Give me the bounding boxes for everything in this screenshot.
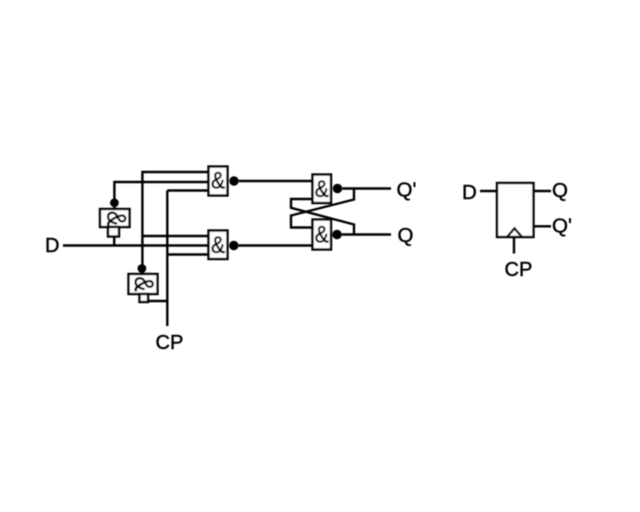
svg-text:D: D [462,181,477,204]
node D label [45,235,59,257]
wire CP to gate G3 [167,189,208,191]
nand gate G4 output bubble [229,241,238,250]
svg-text:&: & [101,211,131,226]
flipflop FF1 body [497,183,534,237]
wire Q output line [342,233,391,235]
svg-text:&: & [211,167,225,194]
svg-text:Q: Q [398,224,414,247]
wire D input line [63,244,209,246]
wire FF1 Q' output [534,225,552,227]
node Q' label (symbol) [552,215,572,238]
wire G4 output to gate G6 [239,244,313,246]
wire FF1 Q output [534,190,552,192]
wire G1 input stub from D line [113,237,115,246]
node CP label (symbol) [505,259,533,281]
node CP label [156,332,184,354]
svg-text:CP: CP [156,332,184,354]
svg-text:CP: CP [505,259,533,281]
wire cross feedback Q to G5 input [291,199,354,235]
node Q label (symbol) [552,179,568,202]
wire G2 square to CP line [148,300,167,302]
nand gate G5 output bubble [333,184,343,194]
flipflop FF1 clock triangle [507,228,522,237]
node Q label [398,224,414,247]
wire G3 output to gate G5 [239,180,313,182]
inverter G1 output bubble [110,198,119,207]
wire D input to FF1 [480,190,497,192]
inverter G1 body [100,209,131,227]
wire cross feedback Q' to G6 input [291,189,354,228]
wire G1 output riser to node Dbar [114,182,208,209]
inverter G2 body [128,274,158,294]
inverter G2 output bubble [138,264,147,273]
node D label (symbol) [462,181,477,204]
wire branch to gate G4 [142,235,208,237]
wire CP vertical [166,191,168,327]
nand gate G4 body [209,231,228,260]
nand gate G5 body [313,175,332,204]
nand gate G6 body [313,220,332,250]
wire Q' output line [342,187,391,189]
svg-text:&: & [315,221,329,248]
inverter G1 output square [108,227,119,237]
nand gate G6 output bubble [332,230,342,240]
nand gate G3 output bubble [229,176,238,185]
svg-text:Q': Q' [552,215,572,238]
svg-text:&: & [315,176,329,203]
inverter G2 output square [140,294,149,302]
node Q' label [397,178,417,201]
nand gate G3 body [209,167,228,196]
svg-text:&: & [128,276,158,291]
svg-text:Q': Q' [397,178,417,201]
svg-text:&: & [211,232,225,259]
wire G2 output riser to gate G3 [142,172,208,274]
wire CP input stub to FF1 [513,237,515,254]
svg-text:D: D [45,235,59,257]
wire CP to gate G4 [167,253,208,255]
svg-text:Q: Q [552,179,568,202]
